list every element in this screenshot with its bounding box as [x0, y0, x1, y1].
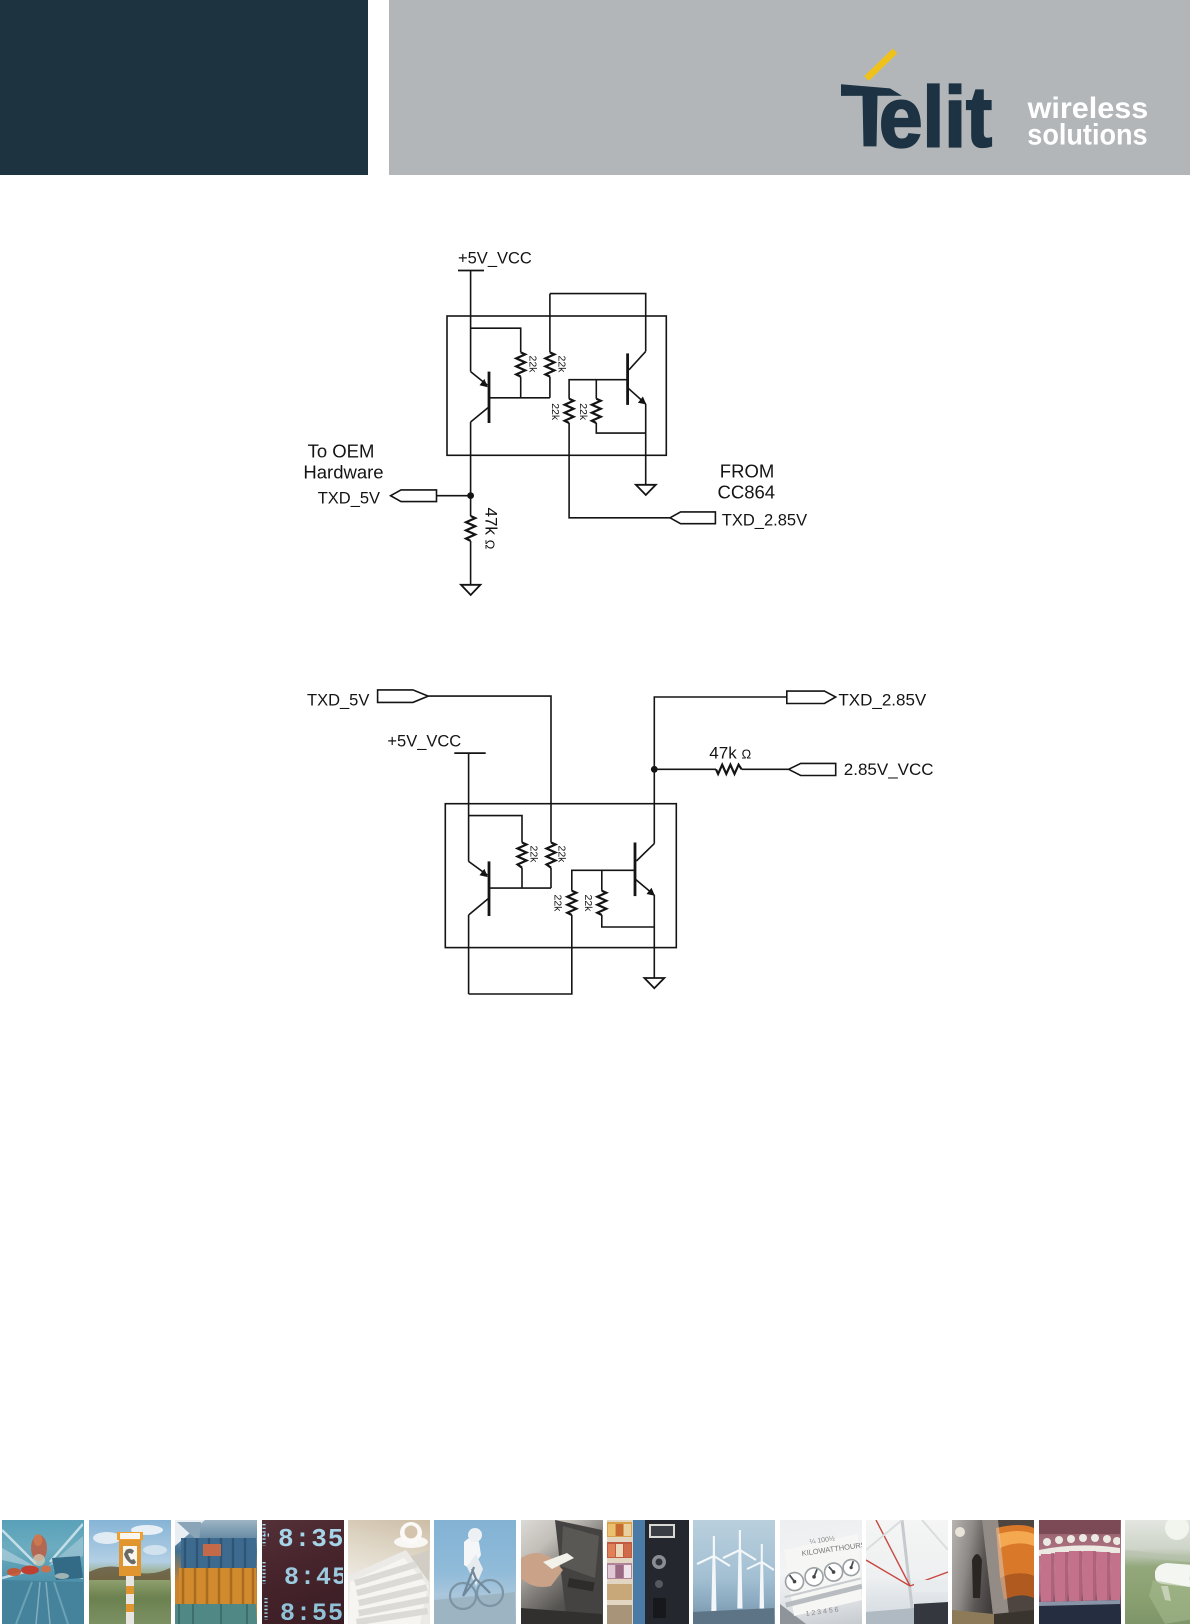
- transistor Q2 (circuit 1, NPN right): [628, 351, 647, 405]
- wire Q3 collector down to bottom bridge: [468, 915, 470, 994]
- wire Q1 base rail: [489, 397, 550, 399]
- wire R4 bottom to Q2 emitter: [596, 423, 645, 433]
- ground GND2 (Q2 emitter): [636, 485, 656, 495]
- resistor R10 47k (circuit 2, horizontal): [716, 765, 742, 774]
- wire R7 bottom to Q3 base rail: [550, 868, 552, 888]
- resistor R4 22k (circuit 1): [592, 399, 601, 423]
- resistor R8 22k (circuit 2): [567, 891, 576, 915]
- header gray block: [389, 0, 1190, 175]
- wire node 2 up and right to TXD_2.85V connector: [654, 697, 787, 769]
- transistor Q4 (circuit 2, NPN right): [635, 843, 655, 897]
- photo: CCTV camera: [1125, 1520, 1190, 1624]
- wire R1 bottom to Q1 base rail: [520, 377, 522, 398]
- svg-text:22k: 22k: [582, 895, 594, 913]
- ground GND3 (Q4 emitter): [644, 978, 664, 988]
- svg-text:22k: 22k: [527, 356, 539, 374]
- wire R9 stub from base rail: [601, 870, 603, 891]
- connector 2.85V_VCC (pointing left): [789, 763, 836, 775]
- wire Q1 collector down to node TXD_5V: [470, 422, 472, 516]
- resistor R5 47k (circuit 1 pulldown): [466, 516, 475, 541]
- svg-text:To OEM: To OEM: [308, 441, 375, 462]
- photo: cyclist: [434, 1520, 516, 1624]
- resistor R3 22k (circuit 1): [565, 399, 574, 423]
- photo: train platform with orange train: [952, 1520, 1034, 1624]
- svg-text:22k: 22k: [577, 403, 589, 421]
- wire R2 bottom to Q1 base rail: [549, 377, 551, 398]
- svg-text:47k Ω: 47k Ω: [709, 744, 751, 763]
- wire R4 stub from base rail: [595, 380, 597, 399]
- connector TXD_2.85V (circuit 2, pointing right): [787, 691, 836, 703]
- svg-text:22k: 22k: [549, 403, 561, 421]
- wire Q4 base rail to R8/R9: [572, 870, 635, 891]
- Telit wordmark: T stem: [863, 95, 878, 146]
- resistor R7 22k (circuit 2): [547, 843, 556, 868]
- connector TXD_2.85V (circuit 1): [670, 512, 715, 524]
- IC box U2 (circuit 2): [445, 804, 676, 948]
- svg-text:22k: 22k: [556, 356, 568, 374]
- photo: dot-matrix timetable: [262, 1520, 344, 1624]
- IC box U1 (circuit 1): [447, 316, 666, 455]
- wire Q2 base rail to R3/R4: [569, 380, 628, 399]
- FILM STRIP: [0, 1520, 1190, 1624]
- photo: tunnel traffic: [2, 1520, 84, 1624]
- header navy block: [0, 0, 368, 175]
- connector TXD_5V (circuit 1): [391, 490, 437, 502]
- svg-text:2.85V_VCC: 2.85V_VCC: [844, 760, 934, 779]
- junction node 2: [651, 766, 658, 773]
- svg-text:FROM: FROM: [720, 460, 774, 481]
- transistor Q1 (circuit 1, PNP left): [471, 372, 489, 423]
- svg-text:8:45: 8:45: [284, 1563, 343, 1592]
- ground GND1 (below R5): [461, 585, 480, 595]
- transistor Q3 (circuit 2, PNP left): [469, 861, 489, 916]
- photo: SOS roadside phone: [89, 1520, 171, 1624]
- wire R3 bottom to connector TXD_2.85V: [569, 423, 670, 518]
- wire R9 bottom to Q4 emitter: [602, 915, 655, 927]
- wire connector TXD_5V to node: [437, 495, 471, 497]
- resistor R9 22k (circuit 2): [597, 891, 606, 915]
- junction node TXD_5V: [467, 492, 474, 499]
- photo: ticket machine with hand: [521, 1520, 603, 1624]
- power rail bar +5V_VCC (circuit 2): [454, 752, 485, 754]
- wire Q2 emitter down to ground: [645, 404, 647, 485]
- resistor R1 22k (circuit 1): [516, 352, 525, 376]
- wire +5V branch to R1 top: [471, 328, 521, 352]
- wire Q4 collector up to node 2: [653, 769, 655, 843]
- svg-text:TXD_5V: TXD_5V: [318, 489, 380, 507]
- svg-text:+5V_VCC: +5V_VCC: [387, 733, 461, 751]
- svg-text:8:55: 8:55: [280, 1599, 343, 1624]
- photo: bottling line: [1039, 1520, 1121, 1624]
- svg-text:TXD_2.85V: TXD_2.85V: [838, 691, 927, 710]
- wire Q3 base rail: [489, 887, 551, 889]
- svg-text:solutions: solutions: [1027, 119, 1147, 152]
- svg-text:TXD_5V: TXD_5V: [307, 691, 369, 709]
- resistor R6 22k (circuit 2): [518, 843, 527, 868]
- wire R6 bottom to Q3 base rail: [521, 868, 523, 888]
- svg-text:22k: 22k: [552, 895, 564, 913]
- wire node 2 to R10: [654, 768, 716, 770]
- photo: vending machine shelves: [607, 1520, 689, 1624]
- wire R5 bottom to ground: [470, 541, 472, 585]
- connector TXD_5V (circuit 2, pointing right): [378, 690, 429, 703]
- wire +5V rail down to Q3 emitter: [468, 753, 470, 861]
- Telit logo yellow slash: [867, 51, 896, 79]
- svg-text:CC864: CC864: [718, 481, 776, 502]
- resistor R2 22k (circuit 1): [545, 352, 554, 376]
- svg-text:8:35: 8:35: [278, 1524, 343, 1554]
- svg-text:22k: 22k: [556, 846, 568, 864]
- svg-text:+5V_VCC: +5V_VCC: [458, 250, 532, 268]
- svg-text:22k: 22k: [527, 846, 539, 864]
- photo: laptop and coffee: [348, 1520, 430, 1624]
- SCHEMATIC SVG: [0, 230, 1190, 1040]
- photo: wind turbines: [693, 1520, 775, 1624]
- wire R2 top to bridge: [549, 294, 551, 353]
- wire bridge R2-to-Q2 collector: [550, 294, 646, 352]
- Telit wordmark: custom T crossbar: [841, 84, 902, 96]
- photo: shipping containers: [175, 1520, 257, 1624]
- wire bottom bridge to R8: [469, 915, 572, 994]
- svg-text:TXD_2.85V: TXD_2.85V: [722, 511, 807, 529]
- wire R10 to 2.85V_VCC connector: [742, 768, 789, 770]
- wire +5V branch to R6 top: [469, 816, 522, 843]
- LOGO SVG: [389, 0, 1190, 175]
- wire Q4 emitter down to ground: [653, 895, 655, 978]
- power rail bar +5V_VCC (circuit 1): [458, 270, 484, 272]
- wire TXD_5V connector to R2 top: [428, 696, 551, 842]
- photo: window with red cables: [866, 1520, 948, 1624]
- photo: kilowatt-hour meter dials: [780, 1520, 862, 1624]
- svg-text:elit: elit: [879, 70, 992, 165]
- wire +5V rail down to Q1 emitter: [470, 271, 472, 372]
- svg-text:Hardware: Hardware: [303, 462, 383, 483]
- svg-text:47k Ω: 47k Ω: [482, 508, 501, 550]
